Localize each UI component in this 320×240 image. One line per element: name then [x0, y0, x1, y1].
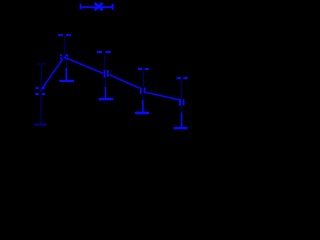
branch E wire lower — [181, 106, 183, 113]
ground A — [59, 80, 74, 82]
branch C insulator dashes — [97, 51, 102, 53]
branch E insulator dashes — [177, 77, 181, 79]
wire A to ground — [65, 59, 67, 68]
insulator B plates — [35, 87, 45, 95]
branch A insulator dashes — [58, 34, 63, 36]
node A plates — [60, 54, 69, 59]
insulator D bars — [140, 88, 142, 95]
wire D to ground — [142, 100, 144, 112]
branch B top dashes — [37, 63, 41, 64]
insulator tick right end — [112, 4, 114, 10]
guy wire left tail into insulator B — [40, 88, 43, 92]
ground E — [174, 127, 188, 130]
wire E to ground — [181, 113, 183, 127]
guy wire right seg D-E — [146, 92, 180, 100]
branch D wire upper — [142, 70, 144, 86]
guy wire right seg A-C — [64, 57, 104, 73]
antenna top wire — [80, 6, 113, 8]
branch A wire — [64, 36, 66, 54]
insulator tick left end — [80, 4, 82, 9]
branch E wire upper — [180, 79, 182, 99]
guy wire right seg C-D — [109, 75, 140, 89]
ground D — [135, 112, 149, 115]
branch C wire lower — [104, 78, 106, 87]
branch D insulator dashes — [138, 68, 142, 70]
wire C to ground — [105, 87, 107, 98]
ground C — [99, 98, 114, 101]
branch B wire upper — [40, 65, 42, 86]
ground B — [34, 124, 47, 126]
branch C wire upper — [104, 53, 106, 69]
insulator C bars — [104, 70, 106, 78]
feedpoint bowtie — [95, 3, 103, 10]
insulator E bars — [179, 99, 181, 106]
branch D wire lower — [142, 94, 144, 100]
branch B wire lower — [40, 95, 42, 123]
guy wire left (A to B) — [43, 59, 63, 88]
